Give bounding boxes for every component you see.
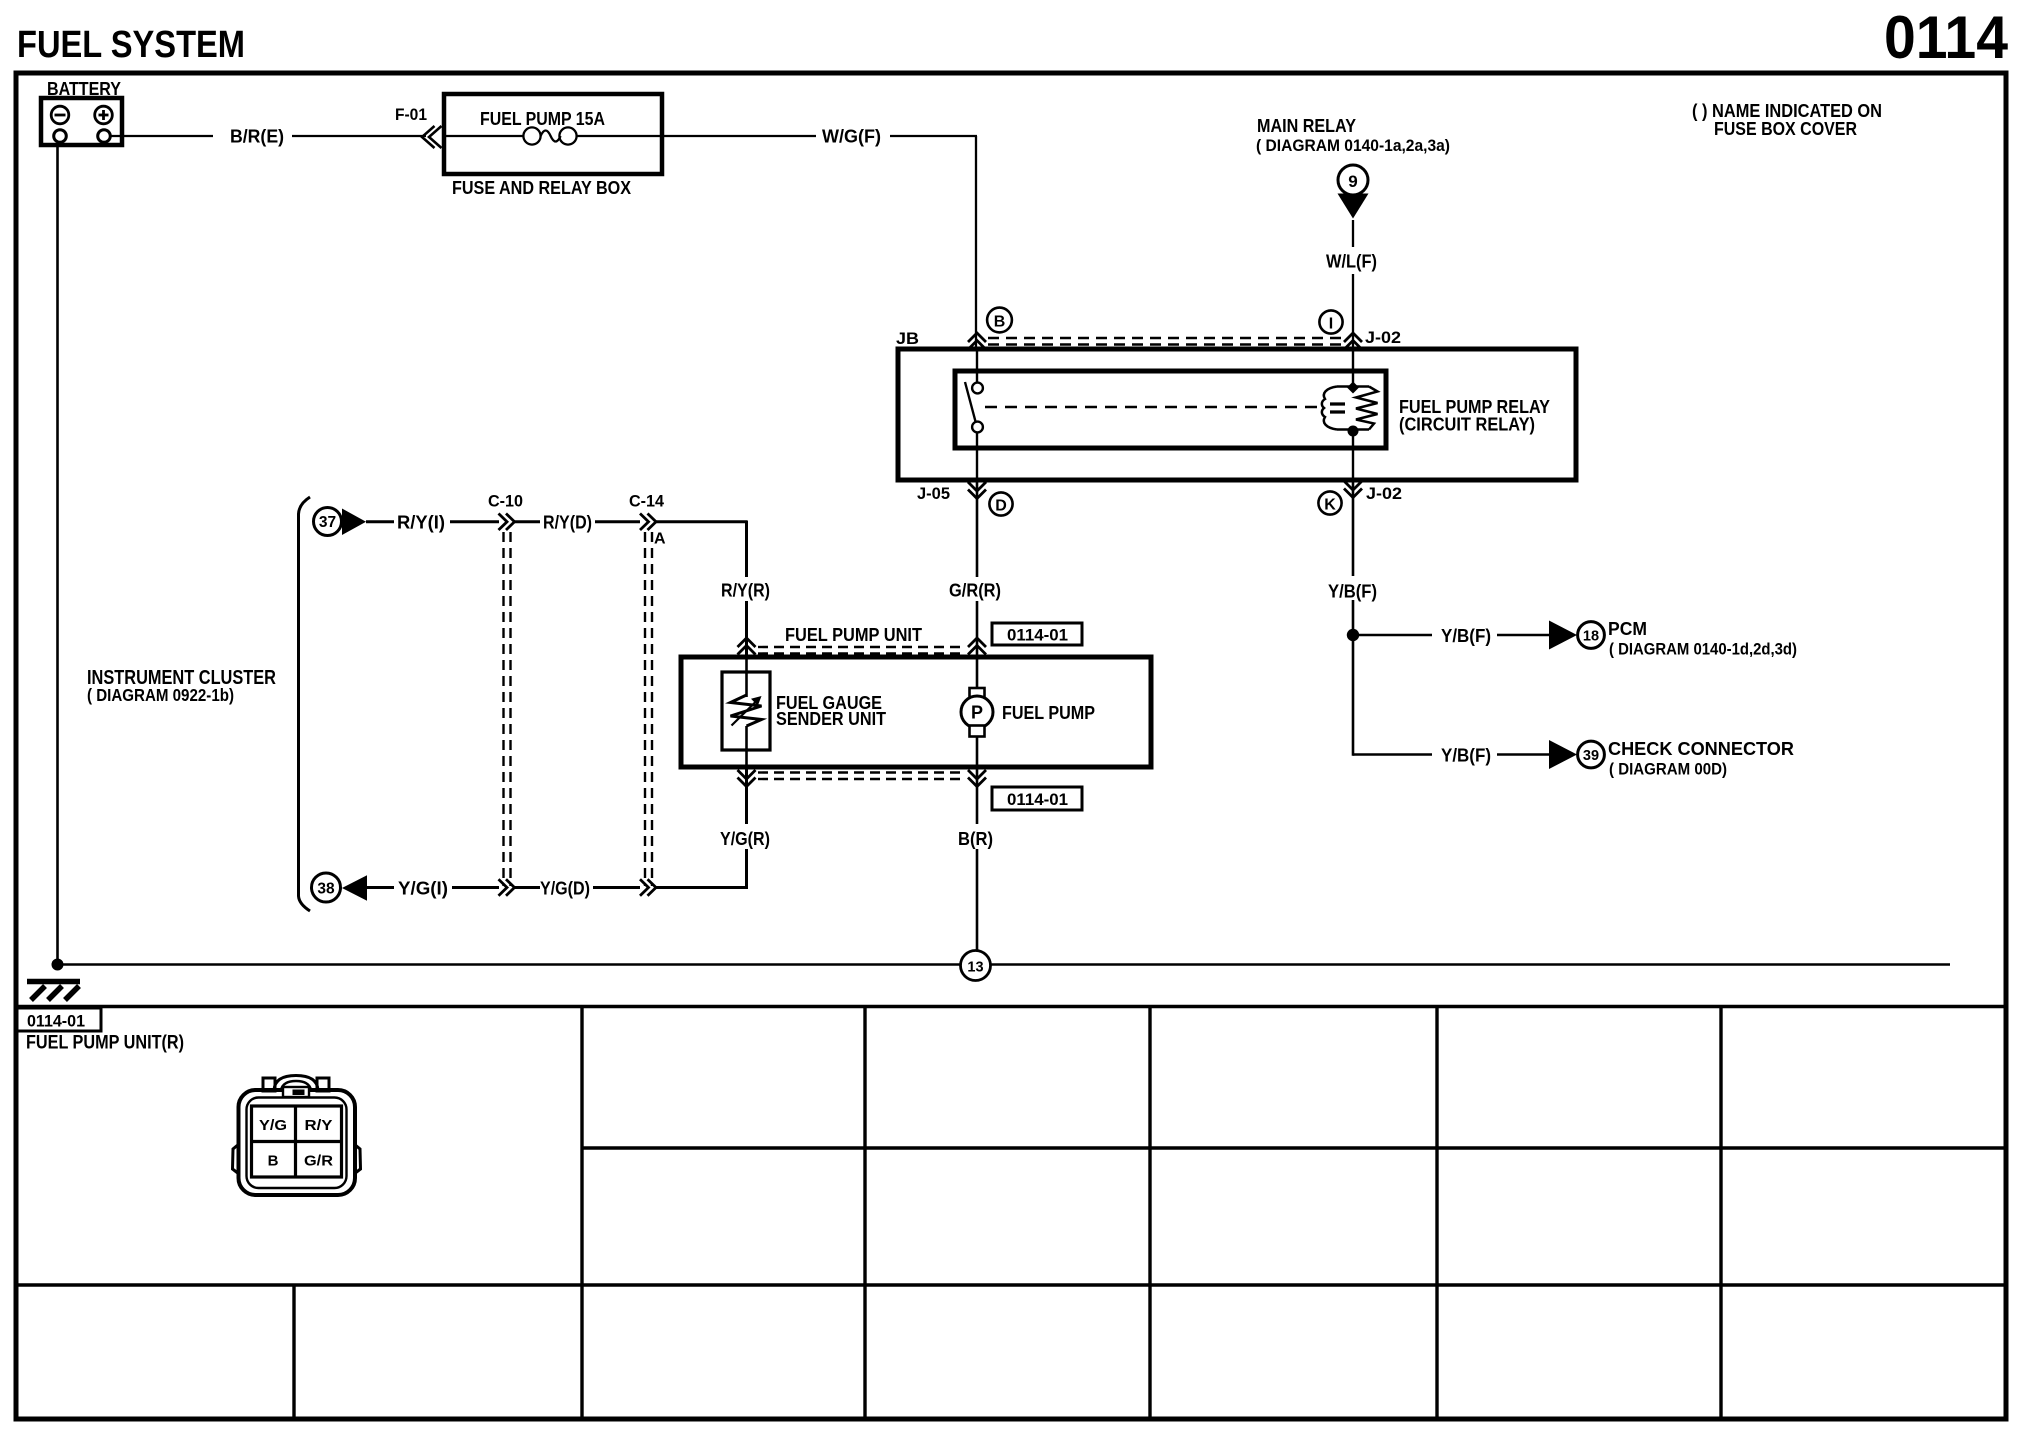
battery box xyxy=(41,98,122,145)
svg-text:Y/B(F): Y/B(F) xyxy=(1441,746,1491,766)
svg-text:Y/G(D): Y/G(D) xyxy=(540,879,590,899)
arrow into 38 xyxy=(342,875,367,900)
connector chevron fuel pump unit bottom left (down) xyxy=(738,770,756,787)
node B circle xyxy=(987,308,1012,333)
connector right wing xyxy=(354,1144,361,1174)
node I circle xyxy=(1319,310,1342,333)
junction dot Y/B(F) xyxy=(1347,629,1359,641)
fuel gauge sender resistor xyxy=(731,657,762,767)
dashed bus JB top xyxy=(988,338,1342,345)
connector chevron K (down) J-02 xyxy=(1344,481,1362,498)
svg-text:( DIAGRAM 00D): ( DIAGRAM 00D) xyxy=(1609,760,1727,779)
svg-text:Y/B(F): Y/B(F) xyxy=(1328,582,1377,602)
fuel pump motor xyxy=(961,657,993,767)
node circle 13 xyxy=(961,951,991,981)
arrow from 37 xyxy=(342,509,366,536)
connector circle 18 xyxy=(1578,622,1605,649)
connector circle 39 xyxy=(1578,741,1605,768)
ground symbol xyxy=(27,982,80,1001)
svg-text:W/G(F): W/G(F) xyxy=(822,127,881,147)
wire B(R) xyxy=(976,766,979,952)
svg-text:FUEL PUMP UNIT: FUEL PUMP UNIT xyxy=(785,625,922,645)
connector circle 9 xyxy=(1338,165,1368,195)
label 0114-01 bottom box xyxy=(992,787,1082,810)
svg-text:0114-01: 0114-01 xyxy=(1007,790,1068,809)
wire battery ground xyxy=(56,145,59,964)
connector chevron D (down) J-05 xyxy=(968,482,986,499)
fuel gauge sender unit box xyxy=(722,672,770,750)
svg-text:P: P xyxy=(971,703,983,723)
connector outer body xyxy=(239,1090,356,1195)
connector inner body xyxy=(247,1098,347,1189)
svg-text:39: 39 xyxy=(1583,748,1599,764)
instrument cluster bracket xyxy=(299,497,311,911)
svg-text:C-14: C-14 xyxy=(629,492,665,511)
svg-text:38: 38 xyxy=(317,881,335,898)
wire Y/B(F) branch to PCM xyxy=(1353,634,1549,636)
connector C-14 dashed xyxy=(645,532,652,886)
battery minus terminal xyxy=(51,106,69,124)
wire W/G(F) fuse box to junction block xyxy=(662,136,977,351)
connector hood xyxy=(274,1076,318,1091)
connector F-01 chevron xyxy=(422,126,442,148)
battery plus terminal xyxy=(95,106,113,124)
svg-text:K: K xyxy=(1324,497,1336,514)
battery minus post xyxy=(54,130,67,143)
dashed bus fuel pump unit bottom xyxy=(758,773,965,780)
svg-text:Y/G: Y/G xyxy=(259,1117,287,1134)
svg-text:J-02: J-02 xyxy=(1366,484,1402,503)
arrow to check connector xyxy=(1549,740,1577,769)
svg-text:FUSE BOX COVER: FUSE BOX COVER xyxy=(1714,119,1857,139)
svg-text:(CIRCUIT RELAY): (CIRCUIT RELAY) xyxy=(1399,415,1535,435)
connector latch xyxy=(283,1087,309,1097)
label 0114-01 top box xyxy=(992,623,1082,645)
svg-text:G/R: G/R xyxy=(304,1153,333,1170)
note: name indicated on fuse box cover xyxy=(1692,101,1882,139)
svg-text:R/Y(R): R/Y(R) xyxy=(721,581,770,601)
svg-text:B: B xyxy=(994,314,1006,331)
connector tab right xyxy=(317,1078,329,1091)
relay coil xyxy=(1322,351,1378,480)
svg-text:( DIAGRAM 0140-1d,2d,3d): ( DIAGRAM 0140-1d,2d,3d) xyxy=(1609,640,1797,659)
svg-text:R/Y(D): R/Y(D) xyxy=(543,513,592,533)
svg-text:I: I xyxy=(1329,316,1333,333)
arrow to PCM xyxy=(1549,621,1577,650)
svg-text:MAIN RELAY: MAIN RELAY xyxy=(1257,116,1356,136)
fuel pump relay box xyxy=(955,371,1386,448)
connector circle 37 xyxy=(314,508,342,536)
wire Y/B(F) branch to check connector xyxy=(1353,753,1549,755)
wire R/Y(R) horizontal xyxy=(656,520,747,523)
svg-text:Y/G(I): Y/G(I) xyxy=(398,879,448,899)
fuse and relay box xyxy=(444,94,662,174)
wire Y/G(R) vertical xyxy=(745,766,748,889)
svg-text:FUEL PUMP UNIT(R): FUEL PUMP UNIT(R) xyxy=(26,1033,184,1054)
svg-text:F-01: F-01 xyxy=(395,105,427,124)
connector pin grid xyxy=(252,1106,342,1177)
svg-text:R/Y: R/Y xyxy=(305,1117,333,1134)
svg-text:0114-01: 0114-01 xyxy=(27,1012,85,1031)
wire R/Y(I) xyxy=(366,520,499,523)
svg-text:G/R(R): G/R(R) xyxy=(949,581,1001,601)
connector chevron C-14 top (right) xyxy=(640,514,656,531)
ground junction dot xyxy=(52,959,64,971)
connector circle 38 xyxy=(312,873,341,902)
connector tab left xyxy=(263,1078,275,1091)
dashed bus fuel pump unit top xyxy=(758,647,965,654)
battery plus post xyxy=(98,130,111,143)
connector chevron I (up) J-02 xyxy=(1344,333,1362,350)
junction block JB box xyxy=(898,349,1576,480)
connector chevron C-14 bottom (right) xyxy=(640,879,656,895)
wire Y/G(D) xyxy=(515,886,641,889)
svg-text:D: D xyxy=(995,498,1007,515)
svg-text:FUEL PUMP: FUEL PUMP xyxy=(1002,703,1095,723)
svg-text:0114: 0114 xyxy=(1884,4,2009,71)
svg-text:9: 9 xyxy=(1348,172,1357,191)
svg-text:0114-01: 0114-01 xyxy=(1007,626,1068,645)
wire R/Y(R) vertical xyxy=(745,521,748,659)
relay internal dashed link xyxy=(985,406,1322,408)
svg-text:FUEL SYSTEM: FUEL SYSTEM xyxy=(17,24,245,66)
connector chevron fuel pump unit top left (up) xyxy=(738,638,756,655)
svg-text:B(R): B(R) xyxy=(958,829,993,849)
svg-text:W/L(F): W/L(F) xyxy=(1326,252,1377,272)
wire R/Y(D) xyxy=(515,520,641,523)
table grid lines xyxy=(16,1006,2006,1419)
svg-text:A: A xyxy=(654,531,666,548)
table label 0114-01 box xyxy=(16,1008,101,1031)
connector chevron C-10 bottom (right) xyxy=(499,879,515,895)
wire Y/G(R) horizontal xyxy=(656,886,748,889)
wire W/L(F) xyxy=(1352,220,1354,351)
fuel pump unit box xyxy=(681,657,1151,767)
table top line xyxy=(16,1005,2006,1008)
svg-text:J-02: J-02 xyxy=(1365,328,1401,347)
connector chevron B (up) xyxy=(968,333,986,350)
svg-text:37: 37 xyxy=(319,514,336,531)
svg-text:FUEL PUMP 15A: FUEL PUMP 15A xyxy=(480,109,605,129)
svg-text:B/R(E): B/R(E) xyxy=(230,127,284,147)
wire G/R(R) xyxy=(976,480,979,658)
svg-text:( ) NAME INDICATED ON: ( ) NAME INDICATED ON xyxy=(1692,101,1882,121)
fuel pump unit connector drawing xyxy=(233,1076,361,1196)
connector chevron fuel pump unit top right (up) xyxy=(968,638,986,655)
wire B/R(E) battery to fuse box xyxy=(110,135,426,137)
wire Y/B(F) xyxy=(1352,480,1355,756)
connector left wing xyxy=(233,1144,240,1174)
arrow from main relay xyxy=(1338,194,1369,219)
svg-text:( DIAGRAM 0140-1a,2a,3a): ( DIAGRAM 0140-1a,2a,3a) xyxy=(1256,136,1450,155)
connector C-10 dashed xyxy=(504,532,511,886)
connector chevron C-10 top (right) xyxy=(499,514,515,531)
svg-text:B: B xyxy=(268,1153,279,1170)
relay switch xyxy=(965,351,983,480)
svg-text:J-05: J-05 xyxy=(917,484,950,503)
svg-text:( DIAGRAM 0922-1b): ( DIAGRAM 0922-1b) xyxy=(87,685,234,705)
fuse FUEL PUMP 15A symbol xyxy=(444,127,662,144)
node D circle xyxy=(989,492,1012,515)
svg-text:SENDER UNIT: SENDER UNIT xyxy=(776,709,886,729)
svg-text:13: 13 xyxy=(967,960,983,976)
svg-text:FUSE AND RELAY BOX: FUSE AND RELAY BOX xyxy=(452,178,631,198)
svg-text:Y/G(R): Y/G(R) xyxy=(720,829,770,849)
node K circle xyxy=(1318,491,1341,514)
svg-text:Y/B(F): Y/B(F) xyxy=(1441,626,1491,646)
svg-text:R/Y(I): R/Y(I) xyxy=(397,513,445,533)
ground rail xyxy=(57,963,1950,966)
connector chevron fuel pump unit bottom right (down) xyxy=(968,770,986,787)
svg-text:18: 18 xyxy=(1583,629,1599,645)
svg-text:PCM: PCM xyxy=(1608,619,1647,639)
svg-text:CHECK CONNECTOR: CHECK CONNECTOR xyxy=(1608,739,1794,759)
svg-text:JB: JB xyxy=(896,329,919,348)
wire Y/G(I) xyxy=(366,886,499,889)
svg-text:C-10: C-10 xyxy=(488,492,523,511)
